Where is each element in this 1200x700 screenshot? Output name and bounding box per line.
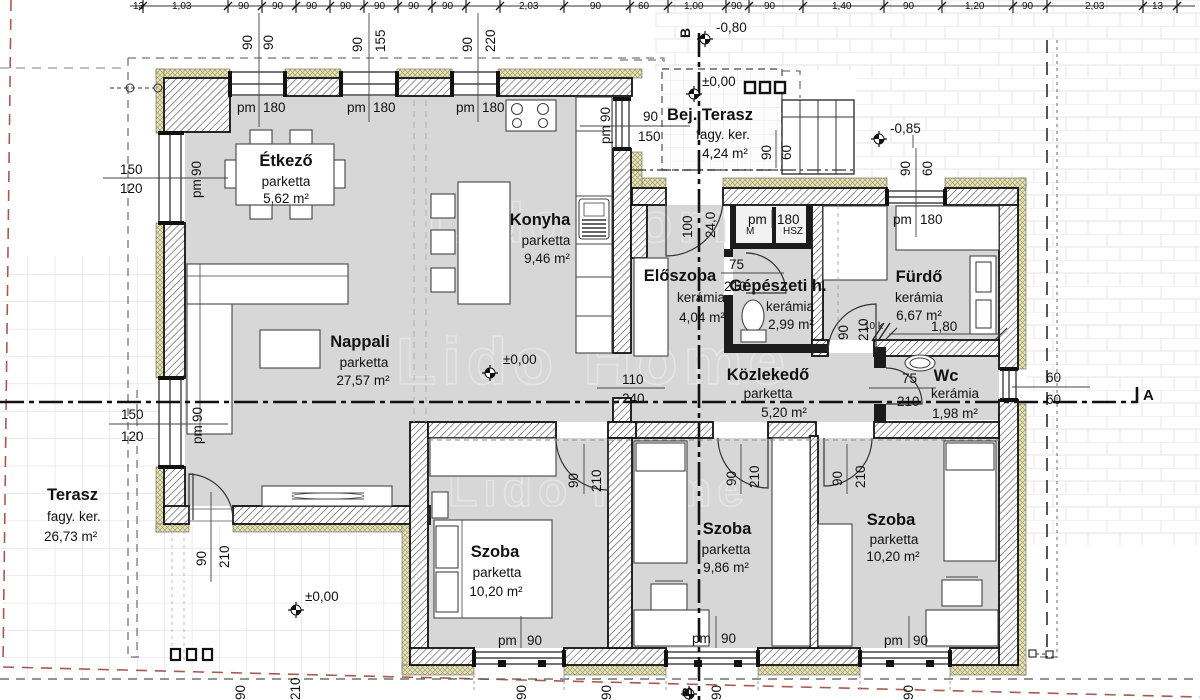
door furdo: [828, 304, 876, 352]
svg-text:Gépészeti h.: Gépészeti h.: [729, 277, 826, 295]
dashed roof overhang outline: [128, 58, 800, 657]
thin black partitions: closets M/HSZ + Gepeszeti + Wc: [724, 205, 886, 422]
svg-text:90: 90: [759, 145, 774, 160]
sofa L: [187, 264, 232, 434]
svg-text:pm: pm: [456, 100, 475, 115]
svg-text:90: 90: [764, 1, 776, 12]
svg-text:210: 210: [856, 318, 871, 341]
porch tile grid: [662, 69, 782, 170]
svg-text:90: 90: [442, 1, 454, 12]
svg-text:13: 13: [133, 1, 145, 12]
svg-text:90: 90: [901, 685, 916, 700]
svg-text:parketta: parketta: [262, 174, 311, 189]
svg-text:10,20 m²: 10,20 m²: [866, 549, 920, 564]
rotated 90/60 furdo window: [898, 161, 935, 176]
svg-text:90: 90: [721, 631, 736, 646]
coffee table: [260, 330, 320, 368]
svg-text:150: 150: [120, 162, 143, 177]
svg-text:pm: pm: [884, 633, 903, 648]
svg-text:4,24 m²: 4,24 m²: [702, 146, 748, 161]
svg-text:90: 90: [350, 37, 365, 52]
svg-text:Közlekedő: Közlekedő: [727, 366, 810, 384]
svg-text:210: 210: [897, 394, 920, 409]
svg-text:pm: pm: [498, 633, 517, 648]
windows top wall: [230, 72, 498, 95]
door szoba1: [556, 438, 608, 490]
door dims rotated: nappali terrace door: [194, 492, 232, 582]
survey squares bottom-right: [1029, 650, 1036, 657]
svg-text:Bej. Terasz: Bej. Terasz: [667, 106, 753, 124]
svg-text:90: 90: [599, 685, 614, 700]
floor: corridor Kozlekedo: [631, 353, 886, 422]
svg-text:90: 90: [514, 685, 529, 700]
svg-text:B: B: [677, 28, 693, 38]
svg-text:90: 90: [566, 473, 581, 488]
szoba2 door 90/210: [724, 444, 762, 494]
wall wing east: [999, 188, 1018, 369]
svg-text:90: 90: [731, 1, 743, 12]
svg-text:90: 90: [233, 685, 248, 700]
kitchen window dims: [598, 107, 613, 144]
dashed line right side 1: [1046, 40, 1048, 658]
svg-text:180: 180: [263, 100, 286, 115]
svg-text:90: 90: [460, 37, 475, 52]
dashed gray line top-left to building: [0, 67, 128, 69]
svg-text:pm: pm: [347, 100, 366, 115]
floor: Szoba2: [632, 438, 810, 648]
svg-text:90: 90: [340, 1, 352, 12]
svg-text:parketta: parketta: [702, 542, 751, 557]
window centerlines from top: [259, 13, 916, 648]
door nappali-terrace: [189, 474, 233, 520]
svg-text:±0,00: ±0,00: [503, 352, 537, 367]
three black squares terrace bottom: [171, 649, 212, 660]
benchmark symbol def: [686, 86, 702, 102]
dashed projection lines in nappali (wing wall above): [414, 100, 426, 422]
bottom cut-off rotated tiny dims: [233, 677, 916, 700]
wall szoba1/szoba2: [608, 422, 636, 438]
svg-text:Terasz: Terasz: [47, 486, 98, 504]
wall furdo south: [812, 340, 828, 356]
Gepeszeti toilet: [742, 300, 764, 332]
svg-text:fagy. ker.: fagy. ker.: [47, 509, 101, 524]
svg-text:-0,85: -0,85: [890, 121, 921, 136]
black dashed setback line bottom: [0, 678, 1200, 680]
svg-text:90: 90: [240, 35, 255, 50]
svg-text:pm: pm: [237, 100, 256, 115]
section line A-A: [0, 387, 1137, 402]
room labels: [259, 106, 979, 599]
svg-text:120: 120: [121, 429, 144, 444]
svg-text:Előszoba: Előszoba: [644, 267, 717, 285]
svg-text:90: 90: [408, 1, 420, 12]
insulation wing east: [1018, 178, 1026, 369]
dashed line right side 2: [1056, 40, 1058, 658]
three black squares porch: [745, 82, 785, 93]
Szoba2 furniture: [634, 441, 687, 563]
rotated 90/60 right of porch: [759, 130, 794, 168]
insulation bottom nappali: [156, 524, 189, 532]
svg-text:kerámia: kerámia: [766, 299, 815, 314]
svg-text:90: 90: [898, 161, 913, 176]
svg-text:90: 90: [189, 161, 204, 176]
wall corridor south / bedrooms north: [428, 422, 556, 438]
svg-text:90: 90: [903, 1, 915, 12]
furdo door 90/210: [836, 318, 871, 341]
door szoba2: [718, 438, 768, 488]
floor: Eloszoba: [631, 205, 724, 353]
svg-text:1,98 m²: 1,98 m²: [932, 406, 978, 421]
svg-text:parketta: parketta: [340, 355, 389, 370]
insulation wing west: [402, 524, 410, 670]
szoba3 door 90/210: [830, 444, 868, 494]
svg-text:220: 220: [483, 29, 498, 52]
svg-text:155: 155: [373, 29, 388, 52]
svg-text:2,03: 2,03: [1085, 1, 1105, 12]
wall nappali south: [164, 506, 189, 524]
svg-text:90: 90: [261, 35, 276, 50]
svg-text:5,20 m²: 5,20 m²: [761, 405, 807, 420]
svg-text:parketta: parketta: [870, 532, 919, 547]
svg-text:Fürdő: Fürdő: [896, 268, 943, 286]
svg-text:75: 75: [729, 257, 744, 272]
faint dotted guides below left door: [172, 524, 184, 660]
entry stairs: [782, 100, 854, 174]
dining table Etkezo: [250, 130, 272, 144]
svg-text:90: 90: [598, 107, 613, 122]
door arcs: [189, 199, 922, 521]
wall wing south (segments between windows): [410, 648, 474, 665]
floor: passage Nappali-corridor: [613, 353, 631, 398]
svg-text:5,62 m²: 5,62 m²: [263, 191, 309, 206]
Wc toilet: [905, 355, 935, 371]
wall top (3 segments): [164, 78, 230, 132]
svg-text:90: 90: [238, 1, 250, 12]
red property boundary line left: [3, 0, 11, 665]
section line B-B vertical: [698, 33, 701, 700]
svg-text:60: 60: [779, 145, 794, 160]
wall wing north: [632, 188, 666, 205]
svg-text:60: 60: [1046, 370, 1061, 385]
terrace tile grid left: [2, 256, 410, 680]
rotated dim pairs above top windows: [240, 29, 498, 52]
szoba1 door 90/210: [566, 444, 604, 494]
floor: M HSZ closets: [736, 205, 812, 243]
svg-text:1,03: 1,03: [172, 1, 192, 12]
svg-text:24,0: 24,0: [703, 212, 718, 238]
survey circles top-left corner: [126, 84, 134, 92]
svg-text:90: 90: [643, 109, 658, 124]
porch eave dashdot: [632, 169, 856, 171]
svg-text:27,57 m²: 27,57 m²: [336, 373, 390, 388]
window kitchen east (to porch): [616, 99, 629, 149]
svg-text:parketta: parketta: [744, 386, 793, 401]
svg-text:90: 90: [194, 551, 209, 566]
svg-text:Szoba: Szoba: [703, 520, 752, 538]
svg-text:90: 90: [1022, 1, 1034, 12]
svg-text:90: 90: [306, 1, 318, 12]
svg-text:pm: pm: [748, 212, 767, 227]
kitchen counter column: [576, 97, 612, 353]
insulation wing south: [402, 665, 474, 675]
windows wing south (3 bedrooms): [474, 652, 950, 664]
svg-text:10,20 m²: 10,20 m²: [469, 584, 523, 599]
svg-text:90: 90: [527, 633, 542, 648]
svg-text:pm: pm: [692, 631, 711, 646]
top dimension chain: [130, 0, 1195, 13]
floor: Gepeszeti: [733, 249, 812, 344]
svg-text:90: 90: [190, 407, 205, 422]
svg-text:4,04 m²: 4,04 m²: [679, 310, 725, 325]
svg-text:100: 100: [680, 215, 695, 238]
svg-text:1,20: 1,20: [965, 1, 985, 12]
svg-text:pm: pm: [190, 425, 205, 444]
svg-text:±0,00: ±0,00: [702, 74, 736, 89]
svg-text:±0,00: ±0,00: [305, 589, 339, 604]
svg-text:90: 90: [830, 471, 845, 486]
svg-text:A: A: [1143, 387, 1154, 404]
furniture strokes: [187, 97, 999, 646]
cooktop: [506, 100, 556, 131]
svg-text:1,40: 1,40: [832, 1, 852, 12]
svg-text:kerámia: kerámia: [677, 290, 726, 305]
dashed horizontal left of B-mark: [620, 59, 663, 61]
svg-text:110: 110: [622, 372, 644, 387]
TV bench: [262, 486, 392, 506]
wall kitchen east: [613, 149, 631, 353]
dotted projections below windows: [474, 675, 950, 693]
svg-text:210: 210: [589, 469, 604, 492]
svg-text:210: 210: [217, 545, 232, 568]
wall furdo west: [812, 205, 823, 346]
windows left wall: [159, 133, 181, 467]
floor: Szoba1: [428, 438, 608, 648]
svg-text:pm: pm: [598, 125, 613, 144]
svg-text:B: B: [679, 687, 695, 697]
red property boundary line bottom: [3, 667, 1200, 697]
svg-text:9,46 m²: 9,46 m²: [524, 251, 570, 266]
svg-text:kerámia: kerámia: [931, 386, 980, 401]
svg-text:150: 150: [638, 129, 661, 144]
svg-text:Konyha: Konyha: [510, 211, 571, 229]
Eloszoba wardrobe: [634, 258, 668, 356]
svg-text:60: 60: [920, 161, 935, 176]
svg-text:90: 90: [590, 1, 602, 12]
svg-text:Szoba: Szoba: [867, 511, 916, 529]
svg-text:HSZ: HSZ: [783, 226, 803, 237]
floor: Wc: [886, 356, 999, 420]
insulation wing north: [642, 178, 666, 188]
svg-text:pm: pm: [189, 179, 204, 198]
insulation kitchen-porch corner: [631, 152, 642, 191]
svg-text:90: 90: [272, 1, 284, 12]
window wc east: [1003, 369, 1016, 400]
svg-text:pm: pm: [893, 212, 912, 227]
svg-text:parketta: parketta: [473, 565, 522, 580]
svg-text:Nappali: Nappali: [330, 333, 390, 351]
svg-text:fagy. ker.: fagy. ker.: [696, 127, 750, 142]
svg-text:-0,80: -0,80: [716, 20, 747, 35]
wall left (3 segments): [164, 223, 185, 378]
window furdo north: [887, 191, 945, 203]
svg-text:Szoba: Szoba: [471, 543, 520, 561]
Furdo fixtures: [823, 206, 887, 280]
door wc: [886, 368, 922, 404]
floor: Szoba3: [818, 438, 999, 648]
svg-text:180: 180: [777, 212, 800, 227]
svg-text:90: 90: [913, 633, 928, 648]
svg-text:90: 90: [724, 471, 739, 486]
entry door porch-eloszoba: [666, 199, 723, 256]
wall wing west: [410, 422, 428, 665]
Szoba1 furniture: [430, 438, 556, 476]
svg-text:kerámia: kerámia: [895, 290, 944, 305]
svg-text:210: 210: [853, 465, 868, 488]
svg-text:120: 120: [120, 181, 143, 196]
door szoba3: [824, 438, 872, 486]
door gepeszeti: [746, 253, 786, 293]
kitchen island + stools: [431, 194, 455, 218]
svg-text:60: 60: [1046, 392, 1061, 407]
svg-text:90: 90: [836, 325, 851, 340]
svg-text:180: 180: [482, 100, 505, 115]
svg-text:180: 180: [920, 212, 943, 227]
svg-text:75: 75: [902, 371, 917, 386]
dashed corner right bottom: [1040, 656, 1059, 658]
svg-text:240: 240: [622, 391, 645, 406]
floor: main living L (Etkezo+Konyha+Nappali): [185, 96, 613, 506]
svg-text:210: 210: [747, 465, 762, 488]
svg-text:26,73 m²: 26,73 m²: [44, 529, 98, 544]
insulation top wall segments: [156, 69, 1026, 675]
masonry backdrop top-right: [655, 0, 1200, 545]
wall szoba2/szoba3 thin: [810, 436, 818, 648]
svg-text:Étkező: Étkező: [259, 151, 312, 170]
insulation left wall segments: [156, 69, 164, 133]
svg-text:180: 180: [373, 100, 396, 115]
svg-text:6,67 m²: 6,67 m²: [896, 308, 942, 323]
svg-text:Wc: Wc: [934, 367, 959, 385]
svg-text:2,99 m²: 2,99 m²: [768, 317, 814, 332]
floor: Furdo: [823, 205, 999, 340]
svg-text:2,03: 2,03: [519, 1, 539, 12]
svg-text:M: M: [746, 226, 754, 237]
exterior walls hatched: [164, 78, 1018, 665]
svg-text:210: 210: [288, 677, 303, 700]
svg-text:13: 13: [1152, 1, 1164, 12]
svg-text:9,86 m²: 9,86 m²: [703, 560, 749, 575]
svg-text:parketta: parketta: [522, 233, 571, 248]
entry door rotated 100/240: [680, 212, 718, 238]
pm 180 labels top windows: [237, 100, 505, 115]
porch dashed outline: [662, 69, 782, 170]
dashed lintel line across bedrooms: [428, 439, 999, 441]
svg-text:90: 90: [709, 685, 724, 700]
svg-text:90: 90: [374, 1, 386, 12]
svg-text:150: 150: [121, 407, 144, 422]
svg-text:1,00: 1,00: [684, 1, 704, 12]
Szoba3 furniture: [818, 524, 852, 646]
svg-text:60: 60: [638, 1, 650, 12]
dashed kitchen island projection: [837, 205, 839, 340]
